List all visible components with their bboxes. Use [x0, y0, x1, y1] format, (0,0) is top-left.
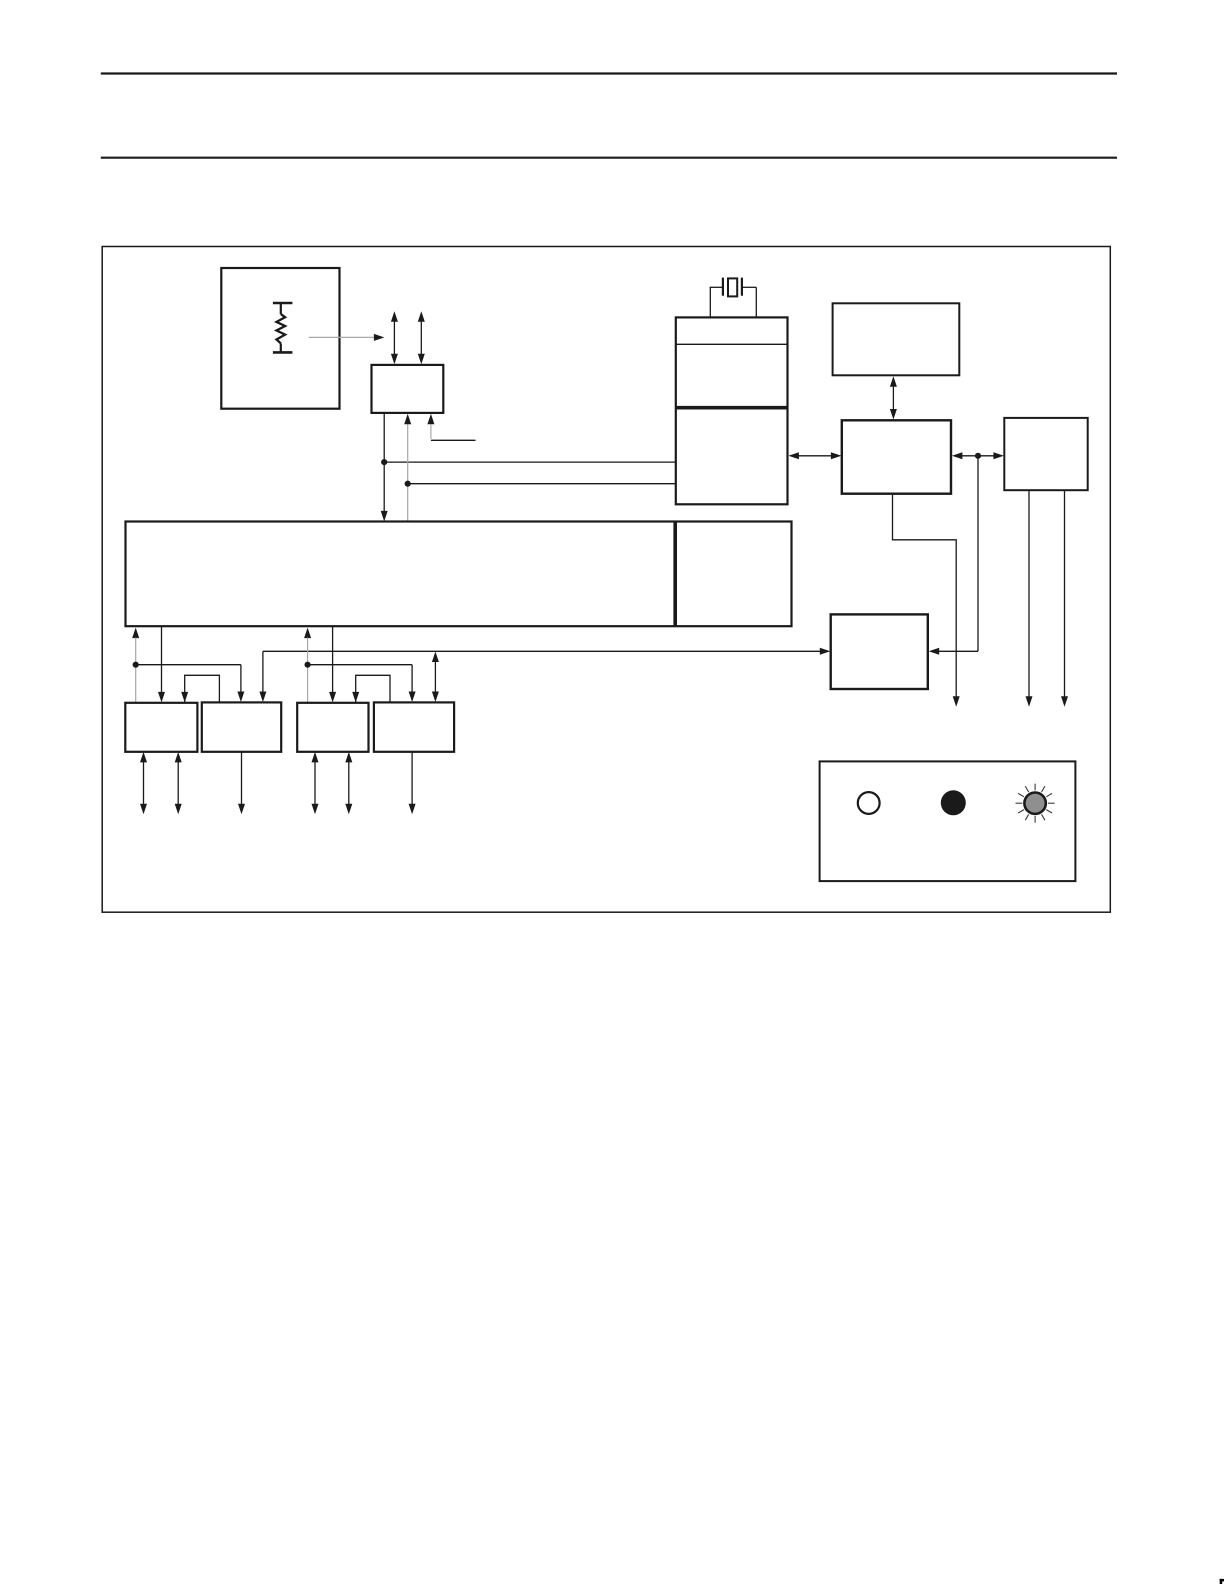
control box — [372, 365, 444, 413]
node rail2 junction — [405, 481, 411, 487]
port1 pin double arrow 1 — [140, 752, 147, 814]
arrow resistor to port lines — [309, 334, 385, 341]
header rule bottom — [101, 157, 1117, 159]
wire control-to-bus — [381, 413, 388, 522]
CPU block — [842, 420, 951, 493]
control input stub arrow — [427, 414, 475, 441]
bus block — [126, 522, 792, 627]
oscillator divider line — [676, 343, 788, 345]
node rail1 junction — [381, 459, 387, 465]
wire left junction to port2 — [136, 665, 245, 702]
node right port junction — [305, 662, 311, 668]
wire right junction to port4 — [308, 665, 416, 702]
rail-port4 double arrow — [432, 652, 439, 703]
node bus junction — [975, 453, 981, 459]
wire rail1 to ROM/RAM block — [384, 461, 676, 463]
staple port3-port4 — [352, 675, 390, 702]
memory thick divider — [676, 406, 788, 410]
wire CPU to interrupt out — [893, 494, 960, 707]
diagram frame — [102, 247, 1110, 913]
wire bus up-arrow left — [132, 628, 139, 703]
resistor R1 — [273, 303, 293, 352]
port2 pin arrow — [238, 752, 245, 814]
port1 latch block — [125, 703, 197, 752]
RAM-CPU double arrow — [890, 376, 897, 419]
wire bus to port1 — [158, 626, 165, 702]
CPU-port double arrow — [952, 452, 1004, 459]
wire bus to port3 — [329, 626, 336, 702]
legend box — [820, 761, 1076, 881]
legend filled circle — [941, 790, 966, 815]
wire rail2 to ROM/RAM block — [408, 483, 677, 485]
timer block — [831, 614, 928, 689]
pull-up resistor box — [221, 268, 339, 409]
port control out wire 1 — [1026, 490, 1033, 707]
port4 latch block — [374, 702, 454, 751]
port control block — [1004, 418, 1087, 490]
memory-CPU double arrow — [788, 452, 841, 459]
port3 latch block — [297, 703, 368, 752]
port1 pin double arrow 2 — [175, 752, 182, 814]
node left port junction — [133, 662, 139, 668]
header rule top — [101, 72, 1117, 74]
staple port1-port2 — [181, 675, 219, 702]
port control out wire 2 — [1061, 490, 1068, 707]
port4 pin arrow — [409, 752, 416, 814]
port2 latch block — [202, 702, 281, 751]
wire main rail — [259, 648, 830, 702]
wire crystal left leg — [709, 287, 711, 317]
crystal X1 — [710, 278, 757, 297]
wire bus-to-control (gray) — [404, 414, 411, 522]
wire junction to timer block — [929, 456, 978, 655]
port double arrow 1 — [391, 311, 398, 364]
legend open circle — [858, 792, 880, 814]
page corner mark — [1220, 1579, 1224, 1584]
legend LED circle — [1016, 784, 1055, 823]
oscillator-memory block — [676, 317, 788, 504]
RAM block — [833, 303, 960, 375]
wire crystal right leg — [755, 287, 757, 317]
port3 pin double arrow 2 — [345, 752, 352, 814]
port3 pin double arrow 1 — [312, 752, 319, 814]
bus thick divider — [673, 522, 677, 627]
port double arrow 2 — [418, 311, 425, 364]
wire bus up-arrow right — [304, 628, 311, 703]
